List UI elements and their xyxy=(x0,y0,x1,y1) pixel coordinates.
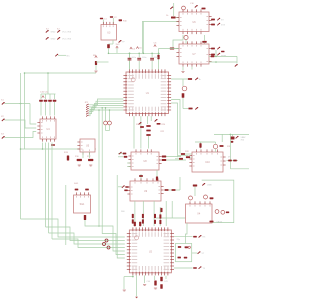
svg-text:SJ: SJ xyxy=(57,29,59,31)
wire xyxy=(48,143,50,234)
capacitor C34 xyxy=(160,284,162,289)
junction xyxy=(138,53,140,55)
wire xyxy=(156,170,158,177)
wire xyxy=(96,61,109,63)
pad xyxy=(195,5,198,8)
wire xyxy=(138,61,140,70)
wire xyxy=(54,94,56,99)
junction xyxy=(109,109,111,111)
crystal Y2 xyxy=(178,246,181,248)
wire xyxy=(173,3,175,16)
IC U9 xyxy=(127,178,163,201)
wire xyxy=(89,152,91,158)
net xyxy=(192,252,198,254)
wire xyxy=(138,53,140,57)
wire xyxy=(124,276,133,278)
ground xyxy=(123,290,126,291)
wire xyxy=(127,166,131,168)
capacitor C21 xyxy=(139,175,143,177)
wire xyxy=(133,116,135,148)
resistor R27 xyxy=(162,156,166,158)
pad xyxy=(119,152,122,155)
buzzer SG1 xyxy=(74,192,91,213)
diode xyxy=(217,23,220,26)
ground xyxy=(181,72,184,73)
junction xyxy=(215,61,217,63)
wire xyxy=(147,116,149,124)
capacitor C11 xyxy=(44,100,48,102)
solder jumper SJ2 xyxy=(57,30,60,33)
net xyxy=(171,100,180,154)
wire xyxy=(194,187,196,197)
wire xyxy=(58,54,66,56)
resistor R7 xyxy=(211,48,215,50)
svg-text:VCC 3V3: VCC 3V3 xyxy=(62,39,72,41)
wire xyxy=(158,49,160,70)
resistor R4 xyxy=(170,48,174,50)
wire xyxy=(102,20,104,25)
wire xyxy=(109,43,114,45)
capacitor C30 xyxy=(134,222,136,226)
wire xyxy=(40,102,42,116)
svg-text:USB: USB xyxy=(207,185,212,187)
junction xyxy=(105,107,107,109)
svg-text:100n: 100n xyxy=(154,57,158,59)
wire xyxy=(106,130,110,132)
IC U10 xyxy=(189,149,225,172)
wire bus xyxy=(21,148,97,150)
crystal Y1 xyxy=(107,44,110,48)
net stair2 xyxy=(46,227,125,241)
wire xyxy=(136,275,138,296)
wire xyxy=(195,141,216,143)
resistor R26 xyxy=(124,156,128,158)
microcontroller U2 xyxy=(127,227,174,275)
wire xyxy=(191,67,193,70)
junction xyxy=(151,53,153,55)
microcontroller U1 xyxy=(123,69,171,116)
capacitor C15 xyxy=(85,189,89,191)
svg-text:U10: U10 xyxy=(205,161,210,164)
wire xyxy=(98,110,100,226)
diode xyxy=(217,47,220,49)
resistor R53 xyxy=(159,220,161,224)
svg-text:VBAT: VBAT xyxy=(241,136,247,139)
wire xyxy=(129,53,131,57)
wire xyxy=(95,65,97,70)
supply mark xyxy=(116,46,118,48)
wire xyxy=(109,125,111,131)
net stair1 xyxy=(21,219,125,237)
wire xyxy=(204,43,206,44)
test point TP1 xyxy=(55,54,58,56)
svg-text:NC: NC xyxy=(67,55,71,57)
wire xyxy=(148,136,150,149)
resistor R25 xyxy=(123,153,127,155)
wire xyxy=(140,116,142,148)
resistor R3 xyxy=(211,24,215,26)
junction xyxy=(101,107,103,109)
wire xyxy=(175,158,183,160)
resistor R16 xyxy=(77,159,82,161)
net xyxy=(186,223,188,244)
IC U5 xyxy=(77,139,95,155)
wire xyxy=(51,143,53,240)
resistor R12 xyxy=(188,108,192,110)
wire xyxy=(40,94,42,99)
wire xyxy=(151,53,153,57)
wire xyxy=(42,143,44,150)
diode D11 xyxy=(199,266,202,269)
supply mark xyxy=(95,56,97,58)
wire xyxy=(142,201,144,226)
resistor R43 xyxy=(226,212,229,214)
svg-text:SG1: SG1 xyxy=(80,203,85,206)
pad xyxy=(235,64,238,67)
wire xyxy=(185,40,187,45)
wire xyxy=(140,174,142,181)
junction xyxy=(129,53,131,55)
wire xyxy=(215,50,217,56)
capacitor C25 xyxy=(231,141,234,143)
net xyxy=(171,103,177,157)
wire xyxy=(174,267,193,269)
wire xyxy=(185,153,192,155)
wire xyxy=(45,143,47,228)
connector X4 xyxy=(186,201,213,223)
capacitor C31 xyxy=(139,222,141,226)
wire xyxy=(47,73,49,94)
supply mark xyxy=(130,47,132,49)
wire xyxy=(118,156,123,158)
wire xyxy=(179,177,181,190)
LED D7 xyxy=(182,6,186,10)
wire xyxy=(108,48,110,53)
svg-text:SG1: SG1 xyxy=(74,183,79,185)
diode D2 xyxy=(182,93,185,98)
supply mark xyxy=(154,45,156,47)
resistor R2 xyxy=(211,19,215,21)
pad X3 xyxy=(2,136,5,139)
resistor R17 xyxy=(88,159,93,161)
wire xyxy=(215,142,217,144)
pad VIN xyxy=(170,7,173,10)
wire xyxy=(174,236,193,238)
resistor R1 xyxy=(171,17,176,19)
wire xyxy=(183,108,188,110)
junction xyxy=(98,109,100,111)
resistor R8b xyxy=(221,51,224,53)
resistor R46 xyxy=(142,214,144,218)
junction pad xyxy=(105,239,108,242)
capacitor C20 xyxy=(156,177,158,181)
wire xyxy=(150,116,152,121)
resistor R49 xyxy=(161,208,163,212)
ground xyxy=(154,288,157,289)
wire xyxy=(227,160,239,162)
junction xyxy=(20,148,22,150)
wire xyxy=(41,93,56,95)
wire xyxy=(221,134,223,142)
resistor R52 xyxy=(154,220,156,224)
svg-text:100n: 100n xyxy=(132,57,136,59)
crystal Q1 pad xyxy=(108,121,112,125)
junction xyxy=(20,103,22,105)
net xyxy=(99,226,125,251)
wire xyxy=(132,275,134,276)
resistor R20 xyxy=(140,126,144,128)
transistor Q4 xyxy=(213,144,217,148)
wire xyxy=(163,156,182,158)
resistor R32 xyxy=(124,190,127,192)
wire xyxy=(144,275,146,283)
net xyxy=(173,35,183,49)
header JP2 xyxy=(86,104,89,106)
crystal loop Y2 xyxy=(176,244,192,262)
resistor R11 xyxy=(188,78,192,80)
wire xyxy=(65,185,67,245)
resistor R41 xyxy=(193,185,197,187)
net xyxy=(5,132,37,138)
junction xyxy=(215,56,217,58)
wire xyxy=(105,125,107,131)
wire xyxy=(165,276,167,279)
wire xyxy=(82,152,84,158)
diode xyxy=(217,18,220,21)
cap C23 xyxy=(215,210,219,214)
wire xyxy=(49,94,51,99)
resistor R42 xyxy=(210,197,214,199)
capacitor C33 xyxy=(160,277,162,282)
svg-text:100n: 100n xyxy=(142,57,146,59)
diode D10 xyxy=(199,235,202,238)
resistor R19 xyxy=(211,56,215,58)
wire xyxy=(109,110,111,121)
wire xyxy=(20,73,22,219)
wire xyxy=(142,22,144,54)
crystal Q1 pad xyxy=(104,121,108,125)
junction xyxy=(143,53,145,55)
pad X1 xyxy=(2,102,5,105)
wire net xyxy=(89,99,123,105)
resistor R58 xyxy=(193,236,197,238)
junction pad xyxy=(107,246,110,249)
transistor Q3 xyxy=(184,35,188,39)
resistor R35 xyxy=(220,145,224,147)
resistor R18 xyxy=(84,215,86,220)
svg-text:VBUS: VBUS xyxy=(217,222,223,224)
wire xyxy=(182,98,184,109)
ground xyxy=(78,165,81,166)
wire xyxy=(154,276,156,280)
wire xyxy=(200,142,202,149)
wire xyxy=(190,156,192,158)
resistor R33 xyxy=(165,189,169,191)
wire xyxy=(127,162,131,164)
solder jumper SJ1 xyxy=(46,30,49,33)
wire xyxy=(129,61,131,70)
wire xyxy=(25,72,97,74)
IC U4 xyxy=(37,116,56,141)
resistor R9 xyxy=(95,61,97,65)
pad xyxy=(119,40,122,43)
wire xyxy=(54,102,56,116)
svg-text:GND: GND xyxy=(51,32,56,34)
solder jumper SJ3 xyxy=(46,37,49,40)
resistor R40 xyxy=(179,158,183,160)
voltage regulator D8 xyxy=(231,137,235,140)
resistor R28 xyxy=(181,153,185,155)
ground xyxy=(135,297,138,299)
junction xyxy=(98,225,100,227)
wire net xyxy=(89,101,123,107)
supply mark xyxy=(42,96,44,98)
net VIN xyxy=(142,22,179,54)
junction xyxy=(24,72,26,74)
wire xyxy=(165,201,167,226)
resistor R51 xyxy=(142,219,144,223)
wire xyxy=(171,201,173,218)
wire xyxy=(123,277,125,289)
resistor R8 xyxy=(211,54,215,56)
junction xyxy=(108,53,110,55)
wire net xyxy=(89,103,123,109)
resistor R47 xyxy=(154,214,156,218)
wire xyxy=(182,79,184,86)
pad xyxy=(155,119,158,122)
resistor R29 xyxy=(162,159,166,161)
capacitor C2 xyxy=(110,16,113,18)
ferrite L1 xyxy=(189,196,193,200)
svg-text:SJ: SJ xyxy=(46,29,48,31)
wire xyxy=(151,61,153,70)
resistor R34 xyxy=(172,189,176,191)
resistor R61 xyxy=(193,267,197,269)
load cap C36 xyxy=(178,257,181,259)
pad xyxy=(139,122,142,125)
load cap C37 xyxy=(184,257,187,259)
resistor R15 xyxy=(67,156,69,161)
wire xyxy=(236,56,238,63)
resistor R48 xyxy=(159,214,161,218)
pad xyxy=(122,185,125,188)
diode xyxy=(217,53,220,55)
wire xyxy=(5,103,31,105)
wire xyxy=(176,17,180,19)
junction xyxy=(230,134,232,136)
capacitor C1 xyxy=(100,18,103,20)
capacitor C6 xyxy=(137,58,141,61)
svg-text:C10 C11: C10 C11 xyxy=(40,92,49,94)
resistor R38 xyxy=(228,160,232,162)
wire xyxy=(209,61,237,63)
capacitor C7 xyxy=(150,58,154,61)
capacitor C16 xyxy=(202,8,206,10)
capacitor C5 xyxy=(128,58,132,61)
net loop xyxy=(202,180,234,223)
osc pad xyxy=(188,246,190,248)
wire xyxy=(118,186,122,188)
net xyxy=(85,220,99,226)
capacitor C32 xyxy=(154,281,156,286)
pad xyxy=(236,136,239,139)
wire xyxy=(171,78,188,80)
junction xyxy=(129,53,131,55)
IC U3 xyxy=(101,22,117,40)
wire xyxy=(45,94,47,99)
solder jumper SJ4 xyxy=(57,37,60,40)
wire xyxy=(112,18,114,25)
diode D1 xyxy=(195,78,198,81)
load cap C35 xyxy=(185,246,188,248)
wire net xyxy=(89,108,123,114)
net xyxy=(117,175,125,258)
wire xyxy=(215,149,217,152)
pad xyxy=(202,183,205,186)
junction xyxy=(47,72,49,74)
wire xyxy=(165,189,181,191)
wire net xyxy=(89,110,123,116)
ferrite L2 xyxy=(204,195,208,199)
wire xyxy=(182,67,184,71)
wire xyxy=(156,217,186,219)
resistor R45 xyxy=(132,214,134,218)
ground xyxy=(94,71,97,72)
capacitor C12 xyxy=(53,100,57,102)
cap C24 xyxy=(221,210,225,214)
wire xyxy=(209,55,237,57)
resistor R5 xyxy=(202,41,206,43)
wire xyxy=(24,73,26,149)
IC U8 xyxy=(128,149,161,170)
resistor R10 xyxy=(119,19,122,21)
resistor R22 xyxy=(146,130,150,132)
supply mark xyxy=(136,47,138,49)
capacitor C14 xyxy=(75,189,79,191)
wire xyxy=(45,102,47,116)
resistor R39 xyxy=(233,160,237,162)
resistor R21 xyxy=(146,125,150,127)
ground xyxy=(143,285,146,286)
resistor R30 xyxy=(186,156,190,158)
wire xyxy=(159,48,180,50)
IC U7 xyxy=(176,41,211,66)
junction xyxy=(132,276,134,278)
junction pad xyxy=(103,243,106,246)
svg-text:GND: GND xyxy=(51,39,56,41)
wire xyxy=(153,201,155,226)
transistor Q2 xyxy=(182,86,187,91)
wire xyxy=(105,108,107,121)
resistor R31 xyxy=(125,186,128,188)
resistor R24 xyxy=(157,123,161,125)
junction xyxy=(42,148,44,150)
wire xyxy=(159,207,161,226)
wire xyxy=(204,35,206,41)
wire xyxy=(118,153,123,155)
wire xyxy=(163,159,187,161)
wire xyxy=(134,201,136,226)
resistor R44 xyxy=(210,221,214,223)
polarity mark xyxy=(51,144,55,146)
ground xyxy=(89,165,92,166)
net bus xyxy=(214,133,249,135)
wire xyxy=(129,53,131,69)
net xyxy=(102,108,125,255)
net xyxy=(5,120,37,128)
svg-text:VCC 3V3: VCC 3V3 xyxy=(62,32,72,34)
wire xyxy=(49,102,51,116)
